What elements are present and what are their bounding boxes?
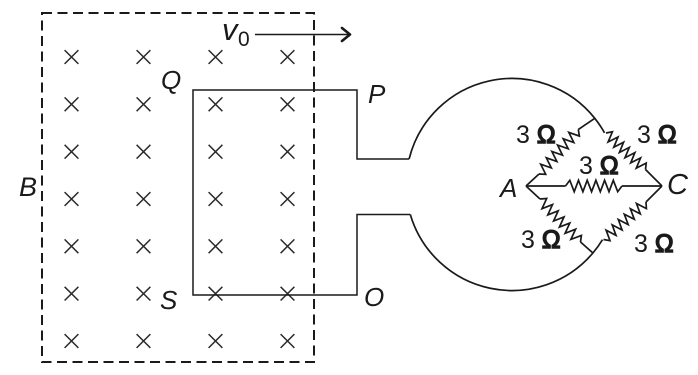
conducting loop QPSO (wire) bbox=[193, 90, 410, 295]
resistor R1 (3 ohm, A to top junction) bbox=[526, 118, 595, 186]
bottom arc wire of circular loop bbox=[410, 215, 602, 291]
resistor R4 (3 ohm, A to bottom junction) bbox=[526, 186, 593, 253]
svg-text:0: 0 bbox=[238, 28, 250, 51]
magnetic field region boundary (dashed) bbox=[42, 13, 314, 362]
resistor R5 (3 ohm, bottom junction to C) bbox=[604, 186, 663, 241]
svg-text:S: S bbox=[160, 285, 178, 315]
svg-text:B: B bbox=[19, 172, 37, 202]
svg-text:3 Ω: 3 Ω bbox=[521, 226, 561, 254]
svg-text:A: A bbox=[498, 173, 517, 203]
resistor R3 (3 ohm, A to C middle) bbox=[526, 180, 662, 191]
svg-text:3 Ω: 3 Ω bbox=[637, 121, 677, 149]
svg-text:C: C bbox=[667, 169, 689, 201]
svg-text:3 Ω: 3 Ω bbox=[579, 152, 619, 180]
svg-text:3 Ω: 3 Ω bbox=[634, 230, 674, 258]
velocity arrow bbox=[255, 34, 350, 36]
magnetic field crosses (B into page) bbox=[65, 50, 295, 348]
top arc wire of circular loop bbox=[409, 78, 604, 159]
svg-text:v: v bbox=[222, 12, 239, 47]
svg-text:O: O bbox=[364, 282, 384, 312]
resistor R2 (3 ohm, top junction to C) bbox=[606, 132, 662, 186]
svg-text:3 Ω: 3 Ω bbox=[516, 121, 556, 149]
svg-text:P: P bbox=[368, 79, 386, 109]
svg-text:Q: Q bbox=[161, 65, 181, 95]
